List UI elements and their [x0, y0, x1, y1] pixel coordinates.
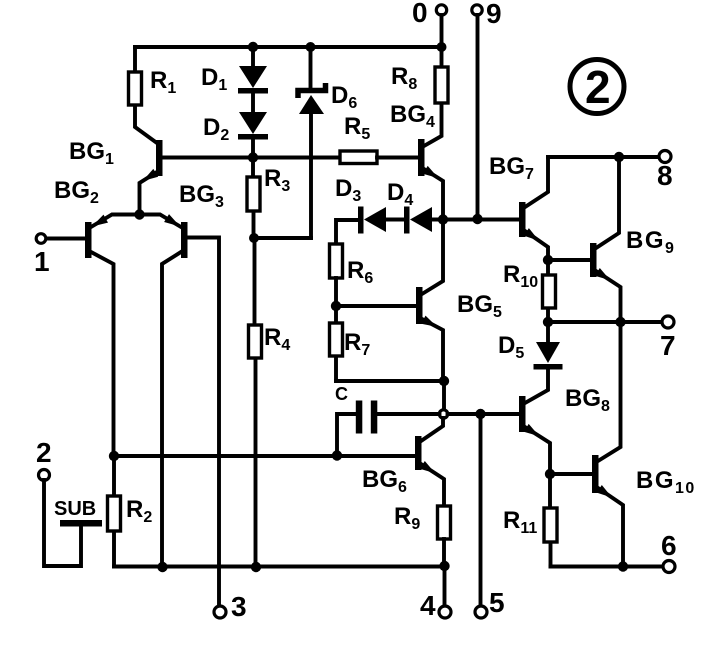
- node BG10 emitter bottom: [618, 561, 628, 571]
- resistor R3: [251, 157, 255, 238]
- node terminal 9 / BG7 base: [472, 214, 482, 224]
- svg-text:2: 2: [36, 437, 52, 468]
- resistor R11: [548, 474, 552, 567]
- terminal 3: [214, 606, 226, 618]
- transistor BG6: [415, 436, 422, 470]
- svg-text:1: 1: [34, 246, 50, 277]
- wire terminal 8 rail: [548, 155, 659, 159]
- transistor BG1: [156, 140, 163, 176]
- wire terminal 0 drop: [440, 15, 444, 47]
- node BG8 emitter / R11 / BG10 base: [545, 469, 555, 479]
- resistor R9: [438, 506, 451, 539]
- wire R7 bottom to BG5 emitter: [336, 379, 444, 383]
- terminal 2: [39, 470, 50, 481]
- svg-text:0: 0: [412, 0, 428, 28]
- resistor R8: [424, 47, 442, 146]
- node R9 bottom rail end: [439, 561, 449, 571]
- transistor BG9: [590, 243, 597, 277]
- diode D3: [358, 207, 364, 234]
- node R4 bottom: [251, 562, 261, 572]
- transistor BG3: [140, 215, 182, 228]
- substrate SUB: [60, 520, 102, 527]
- svg-text:C: C: [335, 384, 348, 404]
- resistor R5: [340, 151, 377, 164]
- node D6 top junction: [306, 42, 316, 52]
- terminal 0: [436, 5, 446, 15]
- svg-text:5: 5: [489, 587, 505, 618]
- node BG1 emitter / BG2 BG3 emitters: [134, 209, 144, 219]
- diode D5: [546, 322, 550, 343]
- node R6/R7/BG5 base: [331, 301, 341, 311]
- transistor BG5: [416, 287, 423, 324]
- node R2 top junction: [109, 451, 119, 461]
- wire D3 D4 row: [336, 220, 358, 244]
- resistor R7: [334, 306, 338, 381]
- node BG5 emitter junction: [439, 376, 449, 386]
- node BG3 collector bottom: [157, 562, 167, 572]
- wire BG6 base rail: [114, 454, 415, 458]
- terminal 9: [472, 5, 482, 15]
- transistor BG10: [592, 455, 599, 493]
- node BG9 emitter / BG10 collector: [615, 317, 625, 327]
- resistor R10: [546, 260, 550, 322]
- wire BG10 base: [550, 472, 592, 476]
- svg-text:SUB: SUB: [54, 498, 96, 520]
- svg-text:8: 8: [657, 160, 673, 191]
- wire terminal 2 to SUB: [44, 480, 81, 566]
- node BG7 emitter / R10 / BG9 base: [543, 255, 553, 265]
- transistor BG8: [519, 396, 526, 432]
- diode D2: [239, 112, 267, 134]
- wire BG1 base rail to R5: [162, 156, 340, 160]
- node ring junction: [439, 410, 447, 418]
- diode D4: [404, 207, 410, 234]
- wire to terminal 4: [443, 566, 447, 606]
- node C left / BG6 base rail: [332, 450, 342, 460]
- resistor R2: [112, 456, 116, 567]
- transistor BG7: [519, 202, 526, 237]
- terminal 6: [663, 561, 675, 573]
- resistor R1: [135, 47, 157, 143]
- svg-text:2: 2: [585, 61, 611, 113]
- wire terminal 9 drop: [476, 15, 480, 219]
- node BG9 collector top: [614, 152, 624, 162]
- wire terminal 6 rail: [551, 565, 664, 569]
- diode D1: [251, 47, 255, 113]
- node R10 bottom / D5 top: [543, 317, 553, 327]
- svg-text:6: 6: [661, 530, 677, 561]
- wire BG8 base rail: [448, 412, 520, 416]
- node top-rail/R8 junction: [437, 42, 447, 52]
- node terminal 5 junction: [475, 409, 485, 419]
- svg-text:4: 4: [420, 590, 436, 621]
- terminal 4: [439, 606, 451, 618]
- node R3/R4/D6 junction: [249, 233, 259, 243]
- transistor BG2: [91, 215, 140, 228]
- resistor R4: [255, 238, 256, 567]
- capacitor C: [337, 414, 440, 455]
- svg-text:9: 9: [486, 0, 502, 29]
- node D2/R3 junction: [248, 152, 258, 162]
- wire bottom rail: [114, 565, 445, 569]
- figure number circled 2: [570, 60, 624, 114]
- resistor R6: [330, 244, 343, 278]
- svg-text:3: 3: [231, 591, 247, 622]
- node D1 top junction: [248, 42, 258, 52]
- svg-text:7: 7: [660, 330, 676, 361]
- wire top rail: [135, 45, 442, 49]
- terminal 8: [659, 151, 671, 163]
- terminal 1: [36, 234, 46, 244]
- node BG4 emitter / D4 / BG5 collector: [438, 214, 448, 224]
- wire down to ring node: [442, 381, 446, 410]
- wire terminal 7 rail: [548, 320, 662, 324]
- wire D6 bottom link: [254, 236, 311, 240]
- wire BG5 base: [336, 304, 416, 308]
- wire BG9 base: [548, 258, 590, 262]
- transistor BG4: [418, 139, 425, 176]
- zener D6: [309, 47, 313, 89]
- terminal 7: [662, 316, 674, 328]
- wire terminal 5 drop: [479, 414, 483, 606]
- terminal 5: [475, 606, 487, 618]
